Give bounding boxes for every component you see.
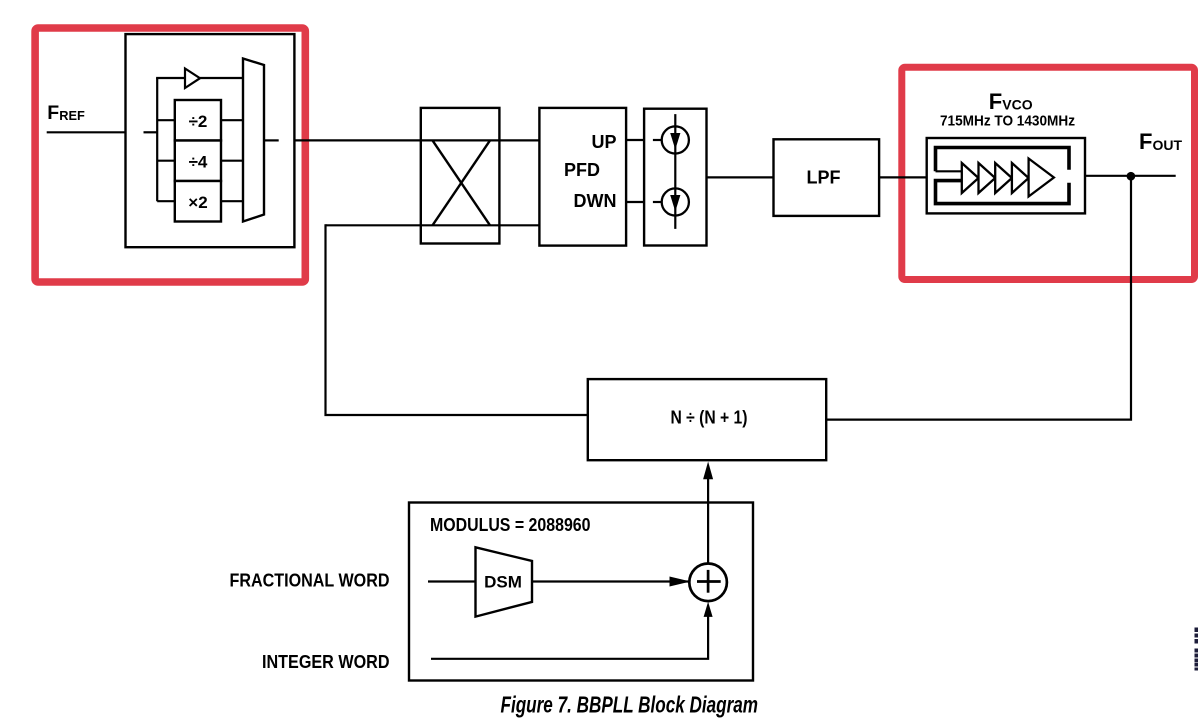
wire selector bus [156,78,158,201]
VCO stage 3 [995,163,1012,193]
wire div2 input stub [157,119,175,121]
svg-text:UP: UP [591,132,616,152]
svg-text:LPF: LPF [807,168,841,188]
buffer amplifier [185,69,200,89]
wire div2 output stub [221,119,243,121]
wire DSM to summer [532,580,690,582]
charge pump block [644,109,706,246]
wire VCO output [1085,175,1176,177]
VCO ring top arm [936,170,962,172]
doubler block (crossed box) [421,108,500,244]
svg-text:×2: ×2 [188,193,207,212]
svg-text:÷4: ÷4 [189,153,208,172]
svg-text:N ÷ (N + 1): N ÷ (N + 1) [671,408,748,428]
wire integer word input [431,616,708,659]
VCO stage 4 [1012,163,1029,193]
divider block ÷4 [175,141,221,182]
current source DWN [662,188,689,215]
current source UP [662,126,689,153]
wire buffer input [156,77,185,79]
VCO stage 2 [979,163,996,193]
summer [689,564,727,602]
red highlight box: VCO section [902,67,1195,279]
svg-text:DSM: DSM [484,573,522,592]
wire fractional word input [428,580,476,582]
svg-text:Figure 7. BBPLL Block Diagram: Figure 7. BBPLL Block Diagram [501,692,759,718]
red highlight box: reference input section [35,28,305,282]
junction dot [1127,172,1136,181]
watermark dashes (rotated figure id, clipped) [1195,628,1198,671]
summer plus sign [697,580,721,583]
wire feedback left path [326,224,588,415]
arrowhead DSM to summer [670,577,691,587]
VCO outer box [927,138,1085,213]
mux selector [243,59,264,222]
svg-text:FRACTIONAL WORD: FRACTIONAL WORD [230,571,390,591]
wire mul2 output stub [221,200,243,202]
wire input stub [144,131,158,133]
wire LPF to VCO [879,176,927,178]
DSM block [476,547,533,616]
wire reference output to doubler [294,139,540,141]
VCO stage 1 [962,163,979,193]
multiplier block ×2 [175,181,221,222]
svg-text:INTEGER WORD: INTEGER WORD [262,652,390,672]
wire summer to divider [707,478,709,564]
wire buffer to mux [200,77,243,79]
wire FREF input [47,131,126,133]
wire feedback into doubler [326,224,540,226]
wire mux output stub [264,139,279,141]
wire feedback right vertical [826,176,1131,420]
svg-text:÷2: ÷2 [189,112,208,131]
svg-text:MODULUS = 2088960: MODULUS = 2088960 [430,515,591,535]
LPF block [774,139,880,216]
arrowhead summer to divider [703,462,713,480]
reference conditioning block [126,34,295,247]
wire div4 output stub [221,160,243,162]
charge pump UP stub [653,139,662,141]
wire div4 input stub [157,160,175,162]
svg-text:DWN: DWN [574,191,617,211]
VCO stage 5 [1029,159,1054,197]
wire UP to charge pump [626,139,644,141]
VCO ring bottom bracket [936,181,1070,204]
svg-text:715MHz TO 1430MHz: 715MHz TO 1430MHz [940,113,1075,130]
wire mul2 input stub [157,200,175,202]
divider block N/(N+1) [588,379,826,460]
PFD block [539,108,626,246]
doubler cross line 2 [433,140,491,225]
arrowhead integer to summer [704,602,713,617]
modulus block [409,503,753,681]
charge pump rail [674,114,676,229]
doubler cross line 1 [433,140,491,225]
charge pump DWN stub [653,201,662,203]
VCO ring top bracket [936,148,1070,172]
divider block ÷2 [175,100,221,141]
svg-text:PFD: PFD [564,160,600,180]
wire charge pump to LPF [707,176,774,178]
wire DWN to charge pump [626,201,644,203]
